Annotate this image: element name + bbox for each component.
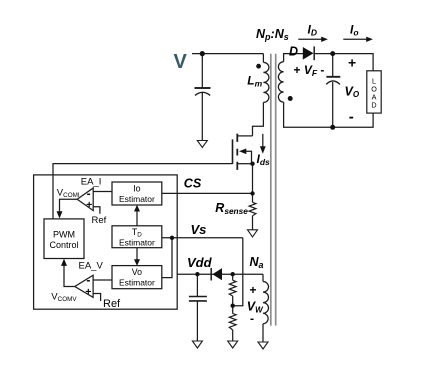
- wire EA_V output arrow: [64, 265, 75, 287]
- diode Da aux: [212, 268, 222, 280]
- transistor Q1 MOSFET: [233, 134, 253, 170]
- svg-text:Ref: Ref: [92, 215, 107, 226]
- node divider mid: [231, 304, 235, 308]
- node CS junction: [250, 191, 254, 195]
- winding auxiliary Na: [263, 282, 269, 324]
- node secondary dot: [288, 96, 293, 101]
- svg-text:EA_I: EA_I: [81, 177, 102, 188]
- svg-text:+ VF -: + VF -: [294, 63, 325, 78]
- diode D: [303, 47, 314, 60]
- svg-text:Io: Io: [133, 184, 140, 194]
- node primary dot: [256, 64, 261, 69]
- ground aux: [258, 342, 268, 349]
- svg-text:Vs: Vs: [191, 222, 207, 237]
- wire EA_I ref: [93, 207, 100, 214]
- wire secondary top: [284, 54, 303, 62]
- box PWM Control: [44, 219, 84, 259]
- svg-text:+: +: [348, 54, 356, 70]
- svg-text:Estimator: Estimator: [119, 277, 155, 287]
- wire EA_V ref: [93, 294, 101, 302]
- winding primary Lm: [263, 62, 269, 102]
- wire Vs to Vo estimator: [162, 238, 172, 278]
- op-amp EA_V: [75, 275, 93, 297]
- wire Vs: [162, 237, 243, 239]
- svg-text:Estimator: Estimator: [119, 237, 155, 247]
- svg-text:PWM: PWM: [53, 229, 75, 239]
- svg-text:Control: Control: [49, 240, 78, 250]
- wire Vdd cap: [196, 274, 198, 341]
- winding secondary Ns: [278, 62, 283, 102]
- wire input cap drop: [201, 54, 203, 88]
- svg-text:EA_V: EA_V: [79, 261, 104, 272]
- node Vin: [200, 51, 205, 56]
- svg-text:-: -: [349, 109, 354, 126]
- controller box U1: [34, 175, 178, 309]
- wire Vdd rail: [177, 273, 263, 275]
- ground Rsense: [248, 230, 258, 237]
- resistor R2: [229, 314, 236, 331]
- svg-text:D: D: [289, 45, 298, 59]
- resistor R1: [229, 280, 236, 296]
- wire primary top drop: [262, 54, 264, 63]
- node source: [250, 162, 254, 166]
- wire input rail: [192, 53, 263, 55]
- node output cap bottom: [330, 125, 335, 130]
- wire input cap to ground: [201, 92, 203, 140]
- svg-text:+: +: [250, 283, 257, 297]
- wire output cap bottom: [332, 82, 334, 127]
- box Io Estimator: [112, 182, 162, 205]
- wire EA_I output arrow: [60, 199, 78, 212]
- capacitor Cdd: [189, 297, 207, 301]
- wire divider top: [232, 274, 234, 280]
- wire aux top: [262, 274, 264, 281]
- resistor Rsense: [249, 202, 256, 215]
- wire gate drive: [53, 164, 233, 219]
- capacitor Co: [326, 77, 340, 85]
- svg-text:Vo: Vo: [132, 267, 142, 277]
- wire Vs tap down: [233, 238, 243, 306]
- wire source to Rsense: [252, 164, 254, 203]
- transformer core: [271, 54, 276, 326]
- svg-text:Ref: Ref: [103, 298, 121, 310]
- node Vdd: [195, 272, 199, 276]
- wire top output rail: [315, 54, 373, 71]
- ground divider: [228, 341, 238, 348]
- wire aux bottom: [262, 324, 264, 342]
- wire divider bottom: [232, 330, 234, 341]
- svg-text:D: D: [371, 101, 376, 110]
- node output cap top: [330, 51, 335, 56]
- wire EA_I minus input: [93, 191, 112, 193]
- wire EA_V minus input: [93, 279, 112, 281]
- current arrow Ids: [262, 134, 264, 148]
- ground Cdd: [192, 341, 202, 348]
- svg-text:-: -: [250, 312, 254, 326]
- svg-text:CS: CS: [184, 176, 202, 190]
- svg-text:Estimator: Estimator: [119, 194, 155, 204]
- svg-text:Vdd: Vdd: [187, 255, 213, 270]
- box TD Estimator: [112, 226, 162, 248]
- wire Rsense to ground: [252, 216, 254, 230]
- op-amp EA_I: [77, 188, 93, 211]
- node divider top: [231, 272, 235, 276]
- node Vs junction: [170, 236, 174, 240]
- svg-text:+: +: [85, 286, 91, 298]
- wire bottom rail: [284, 102, 374, 127]
- capacitor Cin: [195, 88, 211, 95]
- wire arrow TD to Io: [136, 211, 138, 226]
- box Vo Estimator: [112, 266, 162, 289]
- wire arrow TD to Vo: [136, 248, 138, 260]
- svg-text:V: V: [174, 51, 188, 73]
- wire divider mid: [232, 296, 234, 314]
- wire primary bottom to drain: [253, 102, 264, 135]
- svg-text:+: +: [86, 199, 92, 211]
- load box: [367, 71, 381, 113]
- ground input: [197, 141, 207, 148]
- wire CS: [162, 192, 253, 194]
- wire output cap top: [332, 54, 334, 77]
